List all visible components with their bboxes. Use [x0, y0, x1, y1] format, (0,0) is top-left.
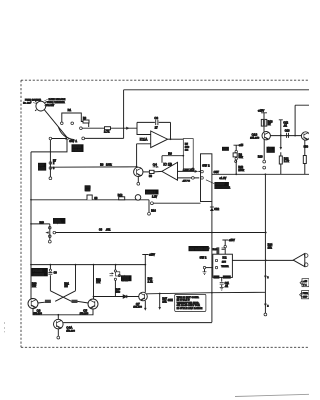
svg-text:FRONT: FRONT — [46, 105, 55, 107]
svg-text:Q3: Q3 — [37, 308, 41, 312]
svg-text:MAN: MAN — [85, 186, 91, 189]
resistor R23 — [303, 156, 306, 164]
svg-text:50k: 50k — [239, 156, 244, 159]
node junction — [159, 293, 161, 295]
svg-text:Q4: Q4 — [153, 162, 157, 166]
wire vertical from top rail to switch row — [123, 90, 125, 139]
resistor R26 body — [216, 247, 219, 255]
capacitor C9 column — [49, 265, 51, 291]
svg-text:SW 2: SW 2 — [202, 164, 210, 168]
node junction Q4 top — [136, 166, 138, 168]
svg-text:IC1A: IC1A — [140, 137, 148, 141]
transistor Q3 — [28, 299, 38, 309]
resistor R18 — [261, 119, 263, 126]
node output terminal — [304, 263, 308, 267]
wire emitter rail E — [33, 309, 93, 315]
svg-text:LAMP: LAMP — [122, 279, 129, 282]
svg-text:IN STYLE U: IN STYLE U — [177, 300, 190, 302]
svg-text:2: 2 — [267, 305, 269, 307]
trimmer body R35 — [116, 272, 120, 276]
note box — [175, 294, 206, 311]
svg-text:R16: R16 — [40, 222, 45, 224]
node open terminal — [57, 336, 60, 339]
svg-text:R32: R32 — [96, 279, 101, 281]
svg-text:LEVEL: LEVEL — [54, 222, 62, 224]
node junction — [75, 264, 77, 266]
svg-text:R12: R12 — [118, 195, 123, 197]
node output terminal — [304, 254, 308, 258]
svg-text:1k: 1k — [268, 123, 271, 126]
IC2 chip box — [213, 254, 233, 277]
svg-text:CR2: CR2 — [214, 209, 220, 211]
svg-text:2.7k: 2.7k — [148, 280, 154, 283]
switch SW2 box — [201, 154, 212, 202]
wire collector column Q5 — [93, 265, 95, 299]
capacitor C13 series — [287, 133, 289, 138]
resistor R34 body — [45, 300, 51, 303]
arrow signal — [153, 166, 158, 168]
node terminal — [235, 158, 237, 160]
wire rail B end column — [148, 200, 150, 213]
node junction — [211, 292, 213, 294]
node junction — [30, 264, 32, 266]
svg-text:27: 27 — [155, 126, 159, 129]
node open terminal — [263, 160, 266, 163]
label TRIG LEVEL (black box B3) — [53, 218, 65, 224]
node junction — [30, 223, 32, 225]
node terminal — [49, 167, 52, 170]
arrow tick lower — [264, 304, 267, 307]
wire Q14 emitter — [304, 140, 306, 156]
capacitor C11 — [220, 282, 224, 284]
svg-text:Q7: Q7 — [136, 302, 140, 306]
svg-text:R6: R6 — [168, 152, 172, 156]
node terminal — [49, 235, 52, 238]
node SW1 lower contact — [49, 137, 52, 140]
svg-text:C13: C13 — [285, 129, 290, 132]
reference tag box 2 — [302, 291, 309, 299]
wire left long rail — [30, 152, 32, 299]
svg-text:R14: R14 — [151, 211, 156, 213]
svg-text:10k: 10k — [116, 292, 121, 294]
diagonal cross couple right — [55, 291, 75, 302]
wire Q7 output — [147, 292, 266, 294]
svg-text:RECORDER: RECORDER — [215, 186, 230, 189]
wire into Q5 base — [78, 301, 89, 303]
label CHART RECORDER (black box) — [214, 182, 229, 189]
node terminal — [118, 275, 120, 277]
wire rail D collector rail — [31, 264, 145, 266]
svg-text:RATE: RATE — [39, 168, 46, 171]
svg-text:Q5: Q5 — [83, 308, 87, 312]
svg-text:1%: 1% — [185, 150, 188, 152]
svg-text:SN 12345 ONLY FOR: SN 12345 ONLY FOR — [177, 305, 201, 307]
node open terminal — [192, 177, 195, 180]
svg-text:+15: +15 — [303, 281, 308, 283]
svg-text:R31: R31 — [64, 283, 69, 285]
node junction on W1 — [235, 173, 237, 175]
node terminal — [49, 162, 52, 165]
svg-text:151-183: 151-183 — [133, 307, 142, 309]
label pin OUT (black) — [223, 275, 231, 278]
resistor R2 on input wire — [105, 127, 111, 130]
diode CR2 — [210, 208, 214, 211]
svg-text:C3: C3 — [154, 116, 158, 120]
resistor R19 — [265, 119, 267, 126]
node open terminal — [49, 177, 52, 180]
node open terminal — [137, 182, 140, 185]
svg-text:SW GATE OUT: SW GATE OUT — [190, 247, 210, 251]
leader lines right — [44, 99, 48, 105]
wire chip output to comparator — [232, 259, 293, 261]
svg-text:FREQ VERNIER: FREQ VERNIER — [47, 102, 65, 104]
svg-text:10k: 10k — [162, 300, 167, 303]
node junction — [93, 296, 95, 298]
node junction — [170, 138, 172, 140]
wire IC1A plus input — [137, 144, 151, 167]
node terminal — [235, 150, 237, 152]
svg-text:PULSE: PULSE — [33, 269, 42, 273]
potentiometer R13 — [135, 195, 141, 201]
capacitor C12 shunt — [279, 120, 283, 148]
wire Q4 emitter — [137, 177, 139, 183]
svg-text:2: 2 — [267, 277, 269, 279]
wire feedback right leg — [170, 122, 172, 139]
svg-text:100k: 100k — [106, 164, 112, 167]
node terminal — [71, 122, 74, 125]
svg-text:R8: R8 — [100, 164, 104, 167]
svg-text:R26: R26 — [213, 249, 218, 251]
resistor R37 stub — [159, 294, 161, 308]
ground symbol — [203, 272, 207, 275]
leader to chart recorder label — [206, 180, 214, 184]
resistor R1 loop above switch row — [62, 113, 89, 127]
resistor R3 on jog wire — [83, 120, 89, 123]
svg-text:.01: .01 — [225, 286, 229, 288]
wire V1 long vertical — [264, 174, 266, 313]
svg-text:THIS IS NOT CONN.: THIS IS NOT CONN. — [177, 297, 200, 299]
label DRIVE PULSE (black box B1) — [72, 144, 84, 152]
svg-text:PULSE: PULSE — [73, 149, 82, 152]
svg-text:R7: R7 — [53, 160, 57, 162]
wire to Q4A — [57, 315, 59, 320]
svg-text:.001: .001 — [106, 230, 112, 232]
svg-text:GAIN: GAIN — [267, 150, 273, 153]
wire to IC1B apex — [154, 170, 162, 173]
resistor R4 — [149, 170, 154, 173]
ground pin stub — [204, 269, 206, 272]
label MULT PULSE (black box B7) — [145, 190, 159, 195]
svg-text:SEE: SEE — [168, 300, 173, 302]
node junction — [265, 232, 267, 234]
wire lower row to left rail — [31, 139, 67, 152]
node junction — [265, 260, 267, 262]
label AC GAIN (black box) — [267, 147, 275, 153]
resistor R12 — [119, 197, 125, 200]
node junction — [144, 264, 146, 266]
node SW1 lower contact — [66, 137, 69, 140]
svg-text:27k: 27k — [96, 282, 101, 284]
svg-text:TRG: TRG — [85, 190, 90, 192]
node pin terminal — [215, 266, 217, 268]
label PULSE GEN (black box B4) — [32, 268, 48, 276]
faint left margin specks — [4, 322, 6, 332]
node open terminal — [80, 127, 83, 130]
node terminal — [235, 160, 237, 162]
potentiometer R9 chain — [234, 145, 239, 174]
node terminal rail C2 start — [53, 231, 56, 234]
wire Q3 collector top — [31, 298, 33, 300]
svg-text:RATE DECADE: RATE DECADE — [49, 98, 66, 101]
node terminal — [49, 227, 52, 230]
svg-text:C6: C6 — [99, 230, 103, 232]
svg-text:3: 3 — [53, 168, 55, 170]
border dashed frame — [21, 80, 309, 347]
node junction — [182, 155, 184, 157]
svg-text:C11: C11 — [225, 283, 230, 285]
relay K1 box — [183, 139, 193, 169]
svg-text:OUT: OUT — [214, 171, 220, 174]
svg-text:IC2: IC2 — [223, 257, 228, 260]
transistor Q13 — [262, 132, 270, 140]
label GATE LAMP (black box B6) — [121, 275, 132, 281]
svg-text:GAIN ADJ: GAIN ADJ — [183, 169, 194, 172]
wire IC1A output — [168, 138, 184, 140]
arrow emitter — [144, 308, 147, 311]
wire Q13 output to Q14 — [270, 135, 301, 137]
diode arrow on input wire — [126, 127, 129, 130]
wire top rail — [124, 89, 309, 91]
wire Q4A emitter — [57, 329, 59, 336]
op-amp IC1B (points left) — [162, 162, 178, 180]
test point TP black label — [222, 147, 229, 151]
SW1 rotation arc — [58, 127, 74, 140]
svg-text:+15V: +15V — [229, 239, 235, 242]
svg-text:100k: 100k — [238, 169, 244, 172]
wire Q4 collector to IC1B — [143, 171, 150, 173]
transistor Q5 — [88, 299, 98, 309]
wire input to IC1A — [82, 127, 137, 129]
node terminal — [114, 278, 116, 280]
node SW2 contact — [201, 177, 204, 180]
svg-text:1.2V: 1.2V — [152, 197, 158, 199]
resistor R6 IC1B feedback — [162, 156, 183, 163]
trimmer R35 column — [114, 265, 116, 297]
diode arrow into junction — [45, 231, 48, 233]
svg-text:TIMER: TIMER — [221, 266, 229, 268]
node terminal — [224, 245, 226, 247]
power +15V for Q7 — [142, 255, 148, 293]
svg-text:SW 1: SW 1 — [69, 139, 77, 143]
wire Q7 base from flip-flop — [94, 296, 139, 298]
capacitor C3 feedback — [137, 121, 171, 123]
svg-text:LENGTH: LENGTH — [33, 272, 44, 276]
svg-text:2.7k: 2.7k — [104, 130, 110, 134]
svg-text:IC 1B: IC 1B — [163, 162, 172, 166]
wire Q4A output to vertical — [63, 322, 212, 324]
wiper arrows — [110, 273, 114, 276]
node junction — [115, 264, 117, 266]
wire IC1A minus input — [137, 122, 151, 134]
svg-text:FREQ RANGE: FREQ RANGE — [25, 99, 41, 102]
diode CR4 on base wire — [123, 295, 127, 298]
ground symbol chip — [220, 287, 224, 290]
capacitor C10 — [222, 248, 225, 250]
svg-text:56: 56 — [149, 175, 152, 178]
wire SW1 wiper diagonal — [44, 110, 67, 138]
wire rail C2 — [56, 232, 266, 234]
wire rail B — [31, 199, 149, 201]
svg-text:2e–2nF: 2e–2nF — [23, 103, 32, 105]
comparator U3 (points left) — [293, 254, 305, 267]
svg-text:2.7k: 2.7k — [284, 160, 290, 163]
svg-text:151-183: 151-183 — [66, 330, 75, 332]
svg-text:R20: R20 — [258, 156, 263, 159]
svg-text:+1.2V: +1.2V — [219, 177, 226, 180]
node terminal — [61, 122, 64, 125]
svg-text:151-190: 151-190 — [250, 137, 260, 139]
transistor Q7 — [139, 292, 148, 301]
rotary switch SW1 body — [36, 101, 46, 111]
node junction rail C — [211, 232, 213, 234]
node box bottom terminal — [192, 168, 195, 171]
power +15V chip supply — [222, 240, 228, 254]
svg-text:R30: R30 — [32, 283, 37, 285]
arrow into SW2 — [195, 170, 199, 173]
node junction — [30, 199, 32, 201]
svg-text:R5: R5 — [185, 144, 189, 146]
svg-text:SW 2: SW 2 — [200, 255, 207, 259]
wire connector column x=50.4 — [49, 140, 51, 177]
node terminal — [114, 270, 116, 272]
wire base resistor column x=75.5 — [75, 265, 77, 291]
node junction — [265, 173, 267, 175]
transistor Q4A — [54, 319, 64, 329]
wire pin stub left — [206, 267, 213, 269]
svg-text:10k: 10k — [185, 147, 190, 149]
svg-text:Q13: Q13 — [252, 132, 258, 136]
reference tag box 1 — [302, 279, 309, 287]
pushbutton S3 body — [87, 195, 92, 200]
svg-text:+15V: +15V — [149, 254, 155, 257]
svg-text:+15V: +15V — [258, 109, 265, 112]
svg-text:RATE 1: RATE 1 — [146, 190, 156, 194]
svg-text:2: 2 — [53, 163, 55, 165]
node open terminal rail B2 — [151, 202, 154, 205]
node junction — [93, 264, 95, 266]
node junction — [280, 135, 282, 137]
node open terminal — [263, 166, 266, 169]
svg-text:-15 PG: -15 PG — [182, 180, 190, 182]
svg-text:1M: 1M — [64, 286, 67, 288]
node SW2 contact — [201, 170, 204, 173]
svg-text:THEREAFTER MOD.: THEREAFTER MOD. — [177, 301, 200, 304]
transistor Q4 — [134, 167, 143, 176]
label pin GND (black) — [213, 275, 219, 278]
svg-text:.01: .01 — [283, 124, 287, 127]
svg-text:10k: 10k — [268, 246, 273, 249]
diagonal cross couple left — [50, 291, 71, 302]
wire IC1B lower stub — [178, 177, 200, 179]
svg-text:SUP: SUP — [303, 296, 308, 298]
label EXT RATE (black box B2) — [38, 163, 46, 171]
wire Q13 emitter down — [263, 139, 265, 160]
resistor R22 — [279, 156, 282, 164]
arrow tick upper — [264, 276, 267, 279]
svg-text:PWR: PWR — [303, 293, 309, 295]
node junction — [50, 264, 52, 266]
label MAN TRIG (black box B5) — [85, 185, 91, 191]
node open terminal — [82, 137, 85, 140]
svg-text:TP1: TP1 — [223, 148, 228, 151]
wire rail A to Q4 base — [52, 166, 137, 168]
node open terminal — [48, 240, 51, 243]
label SW GATE OUT (black box B9) — [189, 246, 209, 251]
resistor R33 body — [72, 300, 78, 303]
wire to Q13 collector — [263, 126, 265, 132]
node open terminal — [203, 266, 205, 268]
node pin terminal — [215, 259, 217, 261]
svg-text:IN STYLE LEVI RANGE: IN STYLE LEVI RANGE — [177, 307, 203, 310]
wire rail B2 to SW2 — [153, 202, 200, 204]
wire W1 main output rail — [212, 173, 309, 175]
faint scan line bottom right — [235, 394, 309, 396]
svg-text:R1: R1 — [68, 108, 72, 112]
wire chip bottom cap — [221, 277, 223, 287]
node junction — [57, 314, 59, 316]
op-amp IC1A — [151, 131, 168, 148]
svg-text:Q4A: Q4A — [66, 326, 72, 330]
node open terminal — [148, 212, 151, 215]
rotary switch tick marks — [35, 100, 47, 111]
svg-text:27k: 27k — [32, 286, 37, 288]
wire long vertical x=211.9 to bottom — [211, 202, 213, 323]
svg-text:SIG: SIG — [304, 146, 308, 149]
node open terminal V1 end — [264, 313, 267, 316]
svg-text:+15: +15 — [239, 144, 244, 147]
wire rail C left — [31, 224, 50, 240]
leader line left — [33, 100, 37, 104]
wire into Q3 base — [38, 301, 45, 304]
power +15V supply for Q13 — [261, 113, 267, 120]
arrow stub — [158, 307, 161, 310]
transistor Q14 — [301, 132, 309, 140]
node junction — [294, 135, 296, 137]
wire IC1B output to SW2 — [178, 170, 195, 172]
wire Q7 emitter ground — [144, 301, 146, 309]
wire switch terminal to vertical riser — [85, 137, 124, 139]
wire corner top right — [295, 105, 309, 135]
svg-text:C9: C9 — [54, 272, 58, 274]
trimmer body R9 — [233, 153, 237, 157]
arrow shunt bottom — [280, 147, 283, 150]
svg-text:155: 155 — [222, 261, 227, 263]
